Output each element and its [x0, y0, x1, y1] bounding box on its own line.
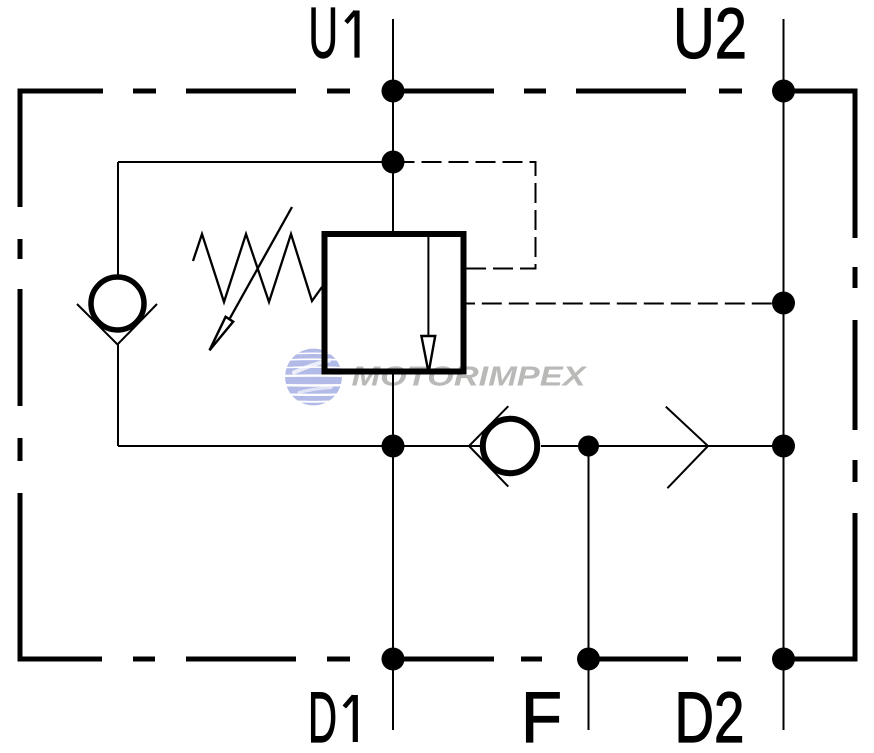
svg-text:F: F [521, 679, 562, 753]
svg-text:D2: D2 [675, 679, 745, 753]
svg-text:U2: U2 [673, 0, 747, 74]
svg-text:U: U [309, 0, 339, 74]
svg-text:D: D [308, 679, 337, 753]
svg-text:MOTORIMPEX: MOTORIMPEX [352, 361, 589, 392]
